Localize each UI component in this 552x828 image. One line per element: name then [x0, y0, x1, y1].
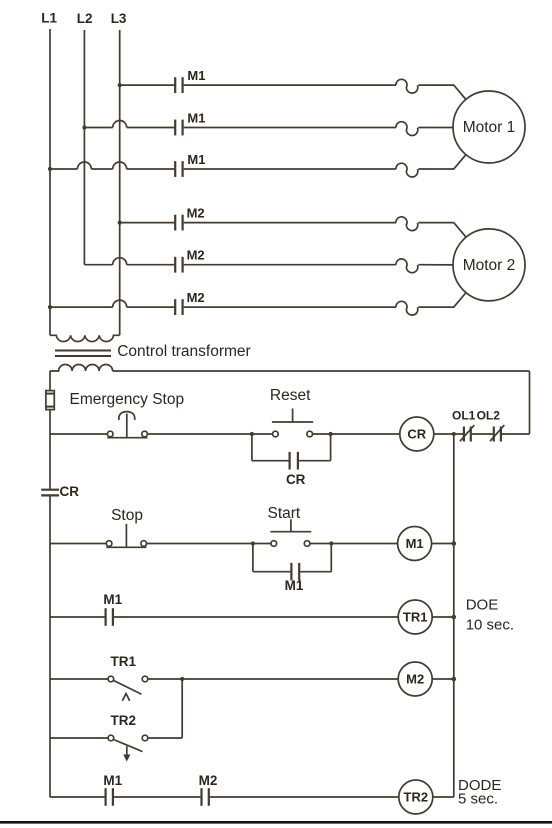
coil M1 — [398, 527, 432, 561]
wire rung E contact to overload — [184, 264, 396, 266]
rung1 wire emergency stop to reset branch — [147, 433, 272, 435]
rung5 wire rail to TR2 contact — [50, 737, 108, 739]
wire rung E overload to motor — [418, 264, 453, 266]
contact CR seal-in — [290, 452, 298, 470]
motor Motor1 — [453, 91, 525, 163]
svg-text:L3: L3 — [111, 11, 127, 26]
hop rung F over L3 — [113, 300, 127, 307]
pushbutton NC Stop — [106, 524, 146, 548]
seal branch wire with contact M1 — [253, 571, 331, 573]
junction at L1 rung C — [48, 167, 52, 171]
wire rung A from L3 — [120, 84, 175, 86]
hop rung C over L3 — [113, 162, 127, 169]
wire rung D overload to motor — [418, 223, 466, 238]
junction at L1 rung F — [48, 305, 52, 309]
svg-text:Stop: Stop — [111, 507, 143, 524]
svg-text:M1: M1 — [406, 536, 424, 551]
rung3 wire coil to return rail — [432, 616, 454, 618]
junction dot return rail rung2 — [452, 541, 457, 546]
node L1 — [49, 29, 51, 335]
rung6 wire contact to coil — [210, 796, 399, 798]
svg-text:DOE: DOE — [466, 597, 499, 614]
wire rung C contact to overload — [184, 168, 396, 170]
rung1 wire coil to return rail — [434, 433, 463, 435]
svg-text:Emergency Stop: Emergency Stop — [70, 391, 185, 408]
rung2 wire start to coil — [310, 543, 398, 545]
hop rung C over L2 — [77, 162, 91, 169]
svg-text:OL1: OL1 — [452, 409, 476, 423]
svg-text:Motor 2: Motor 2 — [463, 257, 516, 274]
svg-text:TR1: TR1 — [403, 610, 428, 625]
rung1 wire reset to coil — [313, 433, 400, 435]
svg-text:M2: M2 — [187, 206, 205, 221]
left rail lower — [49, 496, 51, 797]
coil return rail — [453, 434, 455, 797]
rung2 wire rail to stop — [50, 543, 106, 545]
pushbutton NC Emergency Stop — [107, 412, 147, 438]
rung1 wire between overload contacts — [472, 433, 493, 435]
svg-text:TR2: TR2 — [111, 713, 137, 728]
seal branch right drop rung1 — [330, 434, 332, 461]
seal branch wire with contact CR — [252, 460, 331, 462]
rung1 wire rail to emergency stop — [50, 433, 107, 435]
transformer T1 secondary winding — [50, 365, 113, 372]
wire rung B overload to motor — [418, 127, 453, 129]
wire rung B from L2 — [84, 127, 174, 129]
overload heater rung A — [396, 79, 418, 93]
timed contact TR2 — [108, 735, 148, 761]
right rail — [529, 371, 531, 434]
svg-text:M2: M2 — [187, 290, 205, 305]
junction at L3 rung D — [118, 221, 122, 225]
wire rung C overload to motor — [418, 154, 466, 169]
contact M1 seal-in — [291, 563, 299, 581]
contact M1 rung C — [175, 161, 182, 177]
motor Motor2 — [453, 229, 525, 301]
pushbutton NO Reset — [272, 409, 313, 437]
seal branch left drop rung1 — [251, 434, 253, 461]
junction dot return rail rung4 — [452, 677, 457, 682]
overload heater rung E — [396, 259, 418, 273]
contact M2 rung E — [175, 257, 182, 273]
svg-text:M2: M2 — [406, 672, 424, 687]
junction dot return rail rung3 — [452, 615, 457, 620]
svg-text:CR: CR — [286, 472, 306, 487]
rung2 wire stop to start branch — [146, 543, 271, 545]
wire rung A contact to overload — [184, 84, 396, 86]
node L3 — [119, 30, 121, 335]
junction dots rung2 branch — [251, 541, 334, 545]
svg-text:M2: M2 — [199, 773, 218, 788]
rung4 wire rail to TR1 contact — [50, 678, 108, 680]
rung1 wire OL2 to right rail — [502, 433, 530, 435]
contact M1 rung A — [175, 77, 182, 93]
contact M2 rung D — [175, 215, 182, 231]
svg-text:M1: M1 — [103, 592, 122, 607]
svg-text:Start: Start — [268, 505, 301, 522]
wire TR2 branch riser — [181, 679, 183, 738]
coil CR — [400, 417, 434, 451]
rung6 wire coil to return rail — [433, 796, 454, 798]
svg-text:10 sec.: 10 sec. — [466, 617, 514, 634]
coil TR2 — [399, 780, 433, 814]
svg-text:Reset: Reset — [270, 387, 311, 404]
contact M1 rung B — [175, 120, 182, 136]
fuse F1 on left rail — [45, 391, 55, 410]
junction dot rung4 — [180, 677, 184, 681]
rung3 wire rail to contact — [50, 616, 105, 618]
rung6 wire M1 to M2 contact — [114, 796, 200, 798]
wire secondary to right rail — [113, 370, 530, 372]
junction at L3 rung A — [118, 83, 122, 87]
pushbutton NO Start — [270, 519, 311, 546]
rung6 wire rail to M1 contact — [50, 796, 105, 798]
svg-text:TR1: TR1 — [111, 654, 137, 669]
svg-text:M2: M2 — [187, 248, 205, 263]
node L2 — [83, 30, 85, 265]
contact OL1 — [460, 425, 474, 442]
contact M2 rung F — [175, 299, 182, 315]
svg-text:L1: L1 — [41, 11, 57, 26]
svg-text:CR: CR — [407, 427, 426, 442]
svg-text:M1: M1 — [187, 110, 205, 125]
wire rung D contact to overload — [184, 222, 396, 224]
timed contact TR1 — [108, 676, 148, 701]
hop rung E over L3 — [113, 258, 127, 265]
svg-text:CR: CR — [60, 484, 80, 499]
coil M2 — [398, 662, 432, 696]
svg-text:M1: M1 — [187, 152, 205, 167]
overload heater rung D — [396, 217, 418, 231]
hop rung B over L3 — [113, 121, 127, 128]
svg-text:5 sec.: 5 sec. — [458, 791, 498, 808]
overload heater rung F — [396, 301, 418, 315]
svg-text:L2: L2 — [77, 11, 93, 26]
transformer T1 primary winding — [50, 335, 120, 341]
seal branch left drop rung2 — [252, 544, 254, 572]
contact CR on left rail — [41, 490, 59, 496]
wire rung F overload to motor — [418, 292, 466, 307]
rung5 wire TR2 contact to riser — [148, 737, 182, 739]
wire rung F contact to overload — [184, 306, 396, 308]
rung2 wire coil to return rail — [432, 543, 454, 545]
overload heater rung C — [396, 163, 418, 177]
contact M1 rung3 — [106, 608, 113, 626]
wire rung A overload to motor — [418, 85, 466, 100]
rung3 wire contact to coil — [114, 616, 398, 618]
svg-text:M1: M1 — [285, 578, 304, 593]
contact OL2 — [490, 425, 504, 442]
wire rung D from L3 — [120, 222, 175, 224]
contact M2 rung6 — [202, 788, 209, 806]
left rail upper — [49, 371, 51, 489]
svg-text:M1: M1 — [187, 68, 205, 83]
svg-text:Control transformer: Control transformer — [117, 343, 251, 360]
contact M1 rung6 — [106, 788, 113, 806]
rung4 wire coil to return rail — [432, 678, 454, 680]
svg-text:TR2: TR2 — [404, 790, 429, 805]
rung4 wire TR1 contact to coil — [148, 678, 398, 680]
transformer T1 core — [55, 351, 111, 357]
page rule — [0, 821, 552, 824]
overload heater rung B — [396, 122, 418, 136]
wire rung C from L1 — [50, 168, 174, 170]
junction dots rung1 branch — [250, 432, 333, 436]
junction at L2 rung B — [82, 125, 86, 129]
wire rung B contact to overload — [184, 127, 396, 129]
seal branch right drop rung2 — [330, 544, 332, 572]
svg-text:M1: M1 — [103, 773, 122, 788]
coil TR1 — [398, 600, 432, 634]
wire rung E from L2 end — [84, 264, 174, 266]
svg-text:Motor 1: Motor 1 — [463, 119, 516, 136]
wire rung F from L1 — [50, 306, 174, 308]
svg-text:OL2: OL2 — [477, 409, 501, 423]
junction dot return rail rung1 — [452, 432, 456, 436]
